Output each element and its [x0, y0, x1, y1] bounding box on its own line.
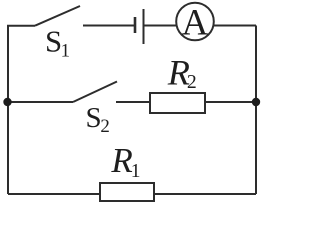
battery cell positive plate: [143, 9, 145, 44]
wire top-left to S1 hinge: [7, 25, 35, 27]
battery cell negative plate: [134, 17, 137, 33]
wire middle left to S2 hinge: [8, 101, 73, 103]
wire right rail: [255, 26, 257, 195]
wire bottom: [8, 193, 256, 195]
switch S2 blade: [73, 82, 117, 103]
junction node left: [3, 98, 11, 106]
wire battery to ammeter: [144, 25, 256, 27]
resistor R2: [150, 93, 205, 113]
resistor R1: [100, 183, 154, 201]
wire S1 contact to battery: [83, 25, 134, 27]
wire left rail: [7, 26, 9, 195]
svg-text:A: A: [182, 3, 209, 44]
wire S2 contact to R2: [116, 101, 150, 103]
junction node right: [252, 98, 260, 106]
switch S1 blade: [35, 6, 80, 26]
wire R2 to right rail: [205, 101, 256, 103]
ammeter A: [176, 3, 214, 44]
